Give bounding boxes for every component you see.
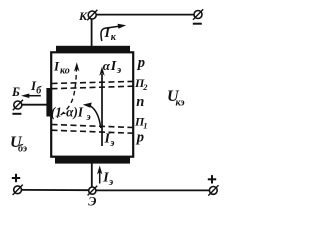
label Ik: [104, 26, 117, 43]
label Uke (collector-emitter voltage): [167, 88, 185, 109]
terminal top-right (circle with slash): [193, 9, 203, 19]
svg-text:э: э: [86, 112, 91, 123]
svg-text:I: I: [110, 59, 117, 74]
current arrow Ie/alphaIe (central vertical arrow): [99, 67, 104, 147]
svg-text:I: I: [53, 58, 60, 73]
transistor body (p-n-p structure rectangle): [51, 52, 133, 156]
svg-text:ко: ко: [60, 66, 70, 77]
label Ube (base-emitter voltage): [10, 134, 27, 155]
label Iko (reverse collector current): [53, 58, 70, 76]
collector electrode (top metal bar): [56, 46, 130, 52]
label E (emitter): [88, 195, 96, 209]
label p (collector region, right side): [136, 55, 145, 71]
svg-text:I: I: [104, 26, 111, 41]
label alpha-Ie (collector transported current): [103, 58, 121, 76]
junction P1 dashed double line: [52, 125, 134, 134]
label K (collector): [78, 9, 88, 23]
node E (emitter junction circle with slash): [88, 186, 98, 196]
wire: bottom horizontal right segment: [96, 189, 209, 191]
terminal bottom-left (circle with slash): [13, 185, 23, 195]
svg-text:э: э: [109, 138, 114, 149]
svg-text:бэ: бэ: [18, 144, 27, 155]
svg-text:p: p: [136, 55, 145, 71]
plus sign of bottom-right terminal: [208, 175, 216, 183]
svg-text:кэ: кэ: [176, 98, 185, 109]
current arrow Iko (dashed path up through P2): [57, 62, 79, 117]
current arrow Ie (outside, pointing up to emitter bar): [97, 166, 102, 184]
label Ie (outside, beside emitter wire): [102, 170, 113, 188]
svg-text:Б: Б: [11, 85, 20, 99]
svg-text:α: α: [103, 58, 111, 73]
terminal bottom-right (circle with slash): [208, 185, 218, 195]
label B (base): [11, 85, 20, 99]
label P1 (lower junction): [134, 114, 147, 130]
svg-text:э: э: [108, 177, 113, 188]
wire: base terminal to base bar: [22, 104, 47, 106]
terminal K (circle with slash): [87, 10, 97, 20]
label p (emitter region, right side): [135, 130, 144, 146]
plus sign of bottom-left terminal: [12, 174, 20, 182]
svg-text:Э: Э: [88, 195, 96, 209]
wire: collector terminal down to top bar: [91, 19, 93, 47]
label Ie (inside box, bottom of central arrow): [104, 132, 115, 150]
svg-text:n: n: [136, 94, 144, 110]
wire: bottom bar down to emitter junction: [91, 163, 93, 187]
base electrode (left metal bar): [46, 88, 51, 117]
svg-text:(1-α)I: (1-α)I: [51, 104, 84, 119]
label P2 (upper junction): [134, 76, 148, 92]
current arrow (1-alpha)Ie (curved branch to base): [83, 103, 101, 129]
minus sign of top-right terminal: [193, 23, 202, 25]
svg-text:2: 2: [142, 82, 148, 92]
label Ib: [30, 78, 42, 97]
junction P2 dashed double line: [52, 81, 134, 88]
wire: top horizontal from K terminal to right terminal: [96, 14, 194, 16]
svg-text:К: К: [78, 9, 88, 23]
wire: bottom horizontal left segment: [22, 189, 89, 191]
minus sign of base terminal: [12, 113, 21, 115]
svg-text:э: э: [116, 65, 121, 76]
emitter electrode (bottom metal bar): [55, 157, 130, 163]
svg-text:p: p: [135, 130, 144, 146]
label n (base region, right side): [136, 94, 144, 110]
current arrow Ik (hooked arrow along top wire): [101, 24, 126, 41]
label (1-alpha)Ie (recombination current): [51, 104, 91, 122]
terminal B (circle with slash): [13, 100, 23, 110]
current arrow Ib (points left): [21, 94, 41, 99]
